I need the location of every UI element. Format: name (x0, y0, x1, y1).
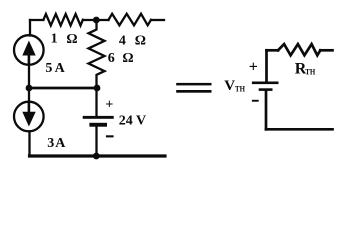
node dot top (junction of 1-ohm, 4-ohm, 6-ohm) (93, 17, 100, 24)
wire VTH top vertical (265, 50, 268, 81)
svg-text:5: 5 (45, 61, 52, 76)
current source I2 3A arrow (28, 103, 31, 114)
svg-text:4: 4 (119, 33, 126, 48)
wire battery branch upper (95, 88, 97, 116)
svg-text:V: V (224, 78, 235, 94)
equals sign top bar (176, 83, 211, 86)
svg-text:Ω: Ω (135, 33, 146, 48)
wire VTH bottom vertical (265, 91, 268, 129)
svg-text:Ω: Ω (122, 51, 133, 66)
svg-text:TH: TH (235, 84, 246, 93)
current source I1 5A arrow (28, 53, 31, 64)
wire between 1-ohm and 4-ohm (83, 19, 109, 21)
resistor R 4-ohm zigzag (109, 14, 152, 25)
current source I2 3A circle (14, 102, 44, 132)
resistor R 6-ohm vertical zigzag (89, 20, 105, 88)
svg-text:24 V: 24 V (119, 114, 146, 129)
resistor RTH zigzag (278, 44, 320, 55)
svg-text:1: 1 (51, 32, 58, 47)
svg-text:TH: TH (305, 66, 315, 76)
wire battery branch lower (95, 127, 97, 156)
svg-text:A: A (55, 136, 66, 151)
svg-text:+: + (105, 97, 113, 112)
svg-text:Ω: Ω (66, 32, 77, 47)
battery V1 24V bottom plate (89, 123, 107, 127)
svg-text:A: A (55, 61, 66, 76)
wire bottom horizontal (30, 154, 166, 157)
wire left vertical to 5A source (29, 20, 31, 36)
wire 3A source bottom to bottom wire (28, 132, 30, 157)
battery VTH top plate (252, 82, 279, 85)
current source I1 5A circle (14, 35, 44, 65)
svg-text:6: 6 (108, 51, 115, 66)
wire top-left segment (30, 19, 43, 21)
battery V1 minus sign (106, 135, 114, 137)
equals sign bottom bar (176, 90, 211, 93)
battery VTH minus sign (252, 100, 259, 102)
wire middle horizontal (29, 87, 97, 90)
wire top-right terminal lead (151, 19, 164, 21)
svg-text:3: 3 (47, 136, 54, 151)
resistor R 1-ohm zigzag (43, 14, 83, 26)
node dot middle-left (26, 85, 33, 92)
wire thevenin bottom horizontal (266, 128, 333, 131)
wire RTH right terminal lead (320, 49, 332, 52)
battery VTH bottom plate (259, 88, 273, 91)
wire middle node down to 3A source (28, 88, 30, 102)
wire top of thevenin to RTH (267, 49, 279, 52)
wire 5A source bottom to middle node (28, 65, 30, 88)
battery V1 24V top plate (83, 116, 114, 119)
node dot middle-right (94, 85, 101, 92)
svg-text:+: + (249, 58, 258, 75)
node dot bottom (battery to bottom wire) (93, 153, 100, 160)
